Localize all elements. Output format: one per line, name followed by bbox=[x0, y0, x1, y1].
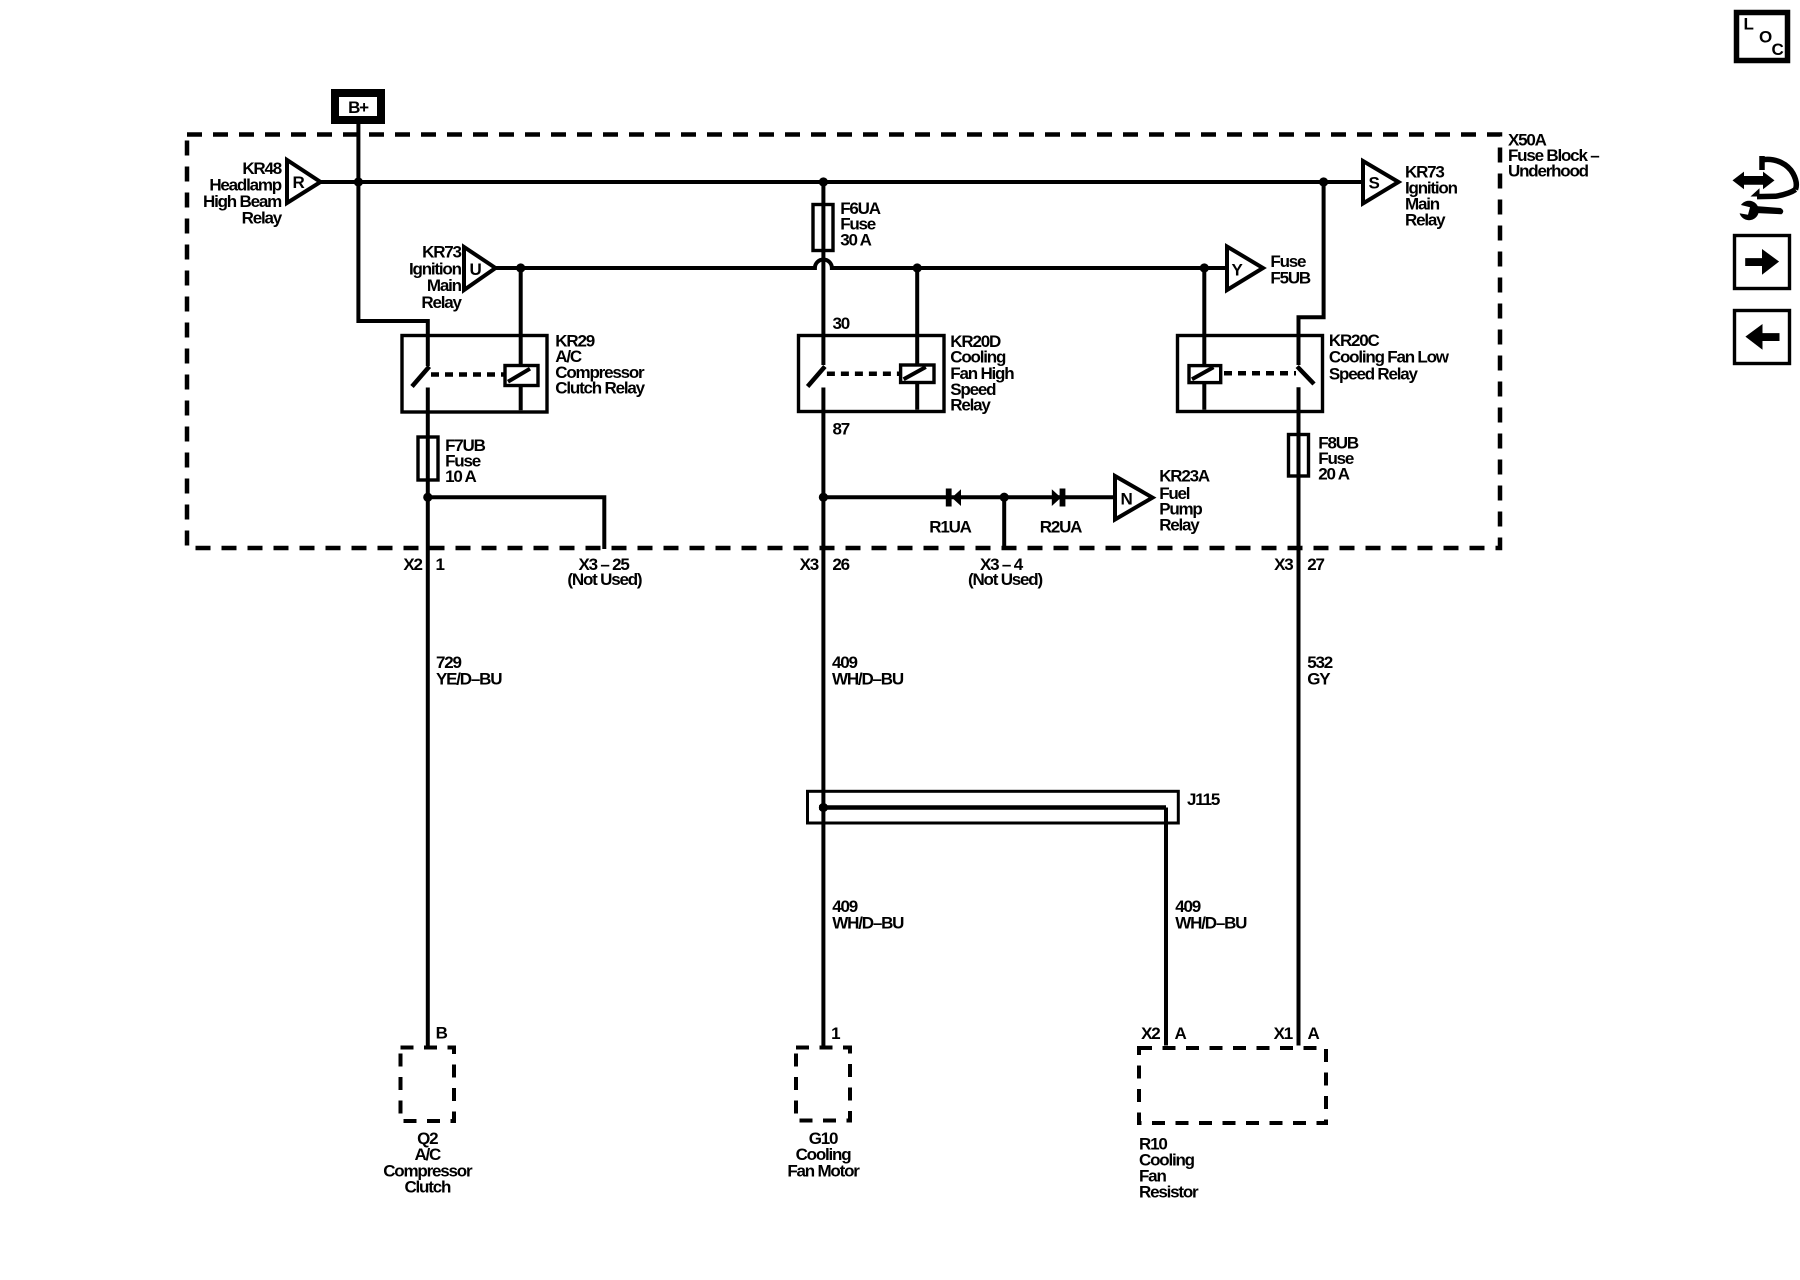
coil bbox=[1189, 366, 1221, 383]
label Fuse F5UB bbox=[1270, 252, 1311, 288]
back arrow box bbox=[1735, 311, 1790, 364]
svg-text:10 A: 10 A bbox=[445, 467, 476, 486]
node: X3-4 stub junction bbox=[1000, 493, 1009, 502]
coil feed wire bbox=[1202, 268, 1206, 410]
svg-text:26: 26 bbox=[832, 555, 849, 574]
wire label 409 WH/D-BU bbox=[832, 653, 904, 689]
fuse F6UA bbox=[813, 182, 881, 365]
pin labels X1 A bbox=[1274, 1024, 1320, 1043]
vehicle data-link icon bbox=[1733, 156, 1797, 220]
label KR73 Ignition Main Relay (left) bbox=[409, 243, 463, 313]
svg-text:R2UA: R2UA bbox=[1040, 518, 1082, 537]
diode R2UA bbox=[1040, 489, 1082, 537]
svg-text:Relay: Relay bbox=[1159, 516, 1200, 535]
label KR20C Cooling Fan Low Speed Relay bbox=[1329, 331, 1450, 384]
svg-text:Relay: Relay bbox=[242, 209, 283, 228]
wire: stub to X3-25 bbox=[428, 497, 605, 549]
relay KR23A triangle N bbox=[1115, 476, 1153, 520]
label KR48 Headlamp High Beam Relay bbox=[203, 159, 283, 228]
node: B+ junction bbox=[354, 177, 363, 186]
X50A fuse block dashed border bbox=[187, 135, 1500, 549]
switch lower stub down through border bbox=[821, 388, 825, 1046]
component Q2 A/C Compressor Clutch box bbox=[401, 1048, 455, 1122]
label KR23A Fuel Pump Relay bbox=[1159, 467, 1210, 535]
svg-text:27: 27 bbox=[1307, 555, 1324, 574]
component G10 Cooling Fan Motor box bbox=[796, 1048, 850, 1121]
wire label 409 WH/D-BU (lower right) bbox=[1175, 897, 1247, 933]
svg-text:KR23A: KR23A bbox=[1159, 467, 1210, 486]
wire: J115 right branch to R10 X2 bbox=[1164, 808, 1168, 1046]
svg-text:Clutch: Clutch bbox=[404, 1177, 451, 1196]
svg-text:WH/D–BU: WH/D–BU bbox=[832, 914, 904, 933]
svg-text:C: C bbox=[1772, 40, 1784, 59]
svg-text:87: 87 bbox=[833, 419, 850, 438]
dashed actuation link bbox=[1224, 371, 1296, 376]
svg-text:X3: X3 bbox=[1274, 555, 1293, 574]
svg-text:Relay: Relay bbox=[421, 293, 462, 312]
node: 87 branch junction bbox=[819, 493, 828, 502]
label KR20D Cooling Fan High Speed Relay bbox=[950, 332, 1014, 415]
LOC reference box bbox=[1737, 13, 1788, 61]
coil feed wire bbox=[519, 268, 523, 410]
coil bbox=[505, 366, 538, 386]
svg-text:20 A: 20 A bbox=[1318, 465, 1349, 484]
dashed actuation link bbox=[431, 372, 505, 377]
fuse F8UB bbox=[1289, 434, 1359, 484]
diode R1UA bbox=[929, 489, 971, 537]
dashed actuation link bbox=[827, 372, 901, 377]
svg-text:Fan Motor: Fan Motor bbox=[787, 1161, 860, 1180]
svg-text:Speed Relay: Speed Relay bbox=[1329, 364, 1419, 383]
node: F6UA tap bbox=[819, 177, 828, 186]
wire: fuel pump relay feed bbox=[823, 495, 1115, 499]
svg-text:1: 1 bbox=[436, 555, 445, 574]
relay KR73 triangle U bbox=[464, 247, 496, 290]
svg-text:WH/D–BU: WH/D–BU bbox=[832, 670, 904, 689]
svg-text:S: S bbox=[1369, 174, 1380, 193]
label Q2 A/C Compressor Clutch bbox=[383, 1129, 473, 1196]
relay KR48 triangle R bbox=[287, 160, 321, 203]
coil bbox=[901, 365, 934, 383]
coil feed wire bbox=[915, 268, 919, 410]
svg-text:F5UB: F5UB bbox=[1270, 269, 1311, 288]
svg-text:Relay: Relay bbox=[1405, 211, 1446, 230]
svg-text:U: U bbox=[470, 260, 482, 279]
B+ power terminal bbox=[335, 93, 381, 120]
svg-text:A: A bbox=[1175, 1024, 1187, 1043]
forward arrow box bbox=[1735, 236, 1790, 289]
relay KR29 A/C Compressor Clutch Relay bbox=[402, 268, 547, 1046]
svg-text:WH/D–BU: WH/D–BU bbox=[1175, 914, 1247, 933]
svg-text:L: L bbox=[1744, 15, 1754, 34]
svg-text:GY: GY bbox=[1307, 670, 1331, 689]
node: KR20D coil tap bbox=[913, 263, 922, 272]
wire: stub to X3-4 bbox=[1002, 497, 1006, 549]
svg-text:B: B bbox=[436, 1024, 448, 1043]
relay KR20C Cooling Fan Low Speed Relay bbox=[1178, 268, 1323, 1046]
svg-text:1: 1 bbox=[831, 1024, 840, 1043]
wire: KR20C switch feed with jog bbox=[1299, 182, 1324, 365]
svg-text:J115: J115 bbox=[1187, 790, 1220, 809]
label G10 Cooling Fan Motor bbox=[787, 1129, 860, 1180]
node: KR20C coil tap bbox=[1200, 263, 1209, 272]
connector labels X2 1 bbox=[403, 555, 444, 574]
label KR29 A/C Compressor Clutch Relay bbox=[555, 332, 645, 398]
node: KR29 coil tap bbox=[516, 263, 525, 272]
splice J115 bbox=[808, 790, 1220, 823]
component R10 Cooling Fan Resistor box bbox=[1139, 1048, 1326, 1123]
connector label X3-4 (Not Used) bbox=[968, 555, 1042, 589]
pin labels X2 A bbox=[1141, 1024, 1186, 1043]
svg-text:YE/D–BU: YE/D–BU bbox=[436, 670, 502, 689]
svg-text:B+: B+ bbox=[348, 98, 369, 117]
switch blade bbox=[412, 367, 429, 387]
svg-text:X2: X2 bbox=[1141, 1024, 1160, 1043]
wire label 532 GY bbox=[1307, 653, 1333, 689]
switch blade bbox=[808, 367, 825, 387]
wire: ignition bus (U wire) with hop over F6UA wire bbox=[496, 260, 1226, 269]
wire label 729 YE/D-BU bbox=[436, 653, 502, 689]
wire: battery bus (R wire) bbox=[321, 180, 1364, 184]
connector label X3-25 (Not Used) bbox=[567, 555, 641, 589]
svg-text:R: R bbox=[293, 173, 305, 192]
fuse F7UB bbox=[418, 436, 486, 486]
relay KR73 triangle S bbox=[1363, 161, 1399, 204]
svg-text:(Not Used): (Not Used) bbox=[968, 570, 1042, 589]
svg-text:N: N bbox=[1121, 490, 1133, 509]
label KR73 Ignition Main Relay (right) bbox=[1405, 163, 1458, 230]
switch lower stub down to fuse F7UB and Q2 bbox=[426, 388, 430, 1046]
svg-text:Relay: Relay bbox=[950, 395, 991, 414]
connector labels X3 26 bbox=[800, 555, 850, 574]
svg-text:30: 30 bbox=[833, 314, 850, 333]
svg-text:R1UA: R1UA bbox=[929, 518, 971, 537]
relay KR20D Cooling Fan High Speed Relay bbox=[799, 268, 945, 1046]
svg-text:Underhood: Underhood bbox=[1508, 162, 1589, 181]
node: X2-1 branch junction bbox=[423, 493, 432, 502]
wire: B+ feed down to KR29 switch bbox=[358, 124, 427, 366]
svg-text:X2: X2 bbox=[403, 555, 422, 574]
triangle Y Fuse F5UB bbox=[1227, 247, 1263, 291]
label R10 Cooling Fan Resistor bbox=[1139, 1135, 1199, 1202]
svg-text:Resistor: Resistor bbox=[1139, 1182, 1199, 1201]
wire label 409 WH/D-BU (lower left) bbox=[832, 897, 904, 933]
node: KR20C switch feed tap bbox=[1319, 177, 1328, 186]
svg-text:Clutch Relay: Clutch Relay bbox=[555, 378, 645, 397]
svg-text:X1: X1 bbox=[1274, 1024, 1293, 1043]
svg-text:A: A bbox=[1308, 1024, 1320, 1043]
svg-text:O: O bbox=[1759, 28, 1772, 47]
svg-text:(Not Used): (Not Used) bbox=[567, 570, 641, 589]
switch blade bbox=[1297, 367, 1314, 385]
switch lower stub down to F8UB and R10 bbox=[1297, 387, 1301, 1045]
svg-text:X3: X3 bbox=[800, 555, 819, 574]
svg-text:30 A: 30 A bbox=[840, 230, 871, 249]
connector labels X3 27 bbox=[1274, 555, 1324, 574]
label X50A Fuse Block - Underhood bbox=[1508, 131, 1599, 181]
